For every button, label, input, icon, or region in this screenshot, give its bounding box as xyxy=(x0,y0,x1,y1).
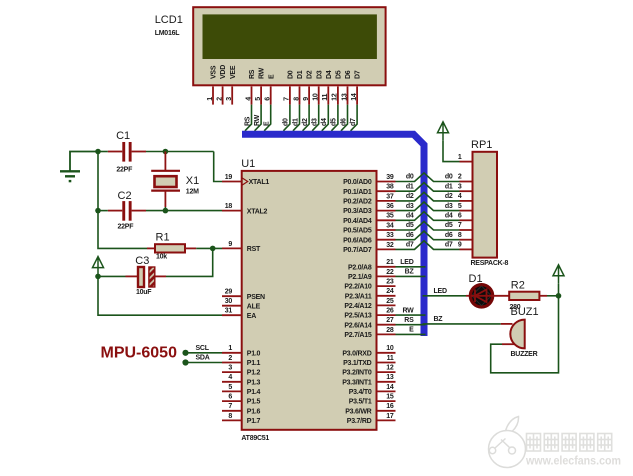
wire C2 to XTAL2 pin xyxy=(146,210,222,212)
svg-text:P1.0: P1.0 xyxy=(247,350,261,357)
terminal SDA xyxy=(182,359,188,365)
svg-text:P2.1/A9: P2.1/A9 xyxy=(348,274,372,281)
svg-text:EA: EA xyxy=(247,313,256,320)
svg-text:BZ: BZ xyxy=(434,316,444,323)
crystal X1 xyxy=(151,171,180,191)
svg-text:6: 6 xyxy=(265,97,272,101)
C3 left stub xyxy=(126,275,139,277)
svg-text:5: 5 xyxy=(228,384,232,391)
junction at C2 left xyxy=(95,208,101,214)
LCD display LCD1 xyxy=(193,7,385,85)
svg-text:12: 12 xyxy=(386,365,394,372)
svg-text:36: 36 xyxy=(386,203,394,210)
svg-text:P3.6/WR: P3.6/WR xyxy=(345,408,371,415)
svg-text:C2: C2 xyxy=(118,190,132,202)
wire R1 to RST pin xyxy=(196,247,222,249)
svg-text:VEE: VEE xyxy=(230,65,237,79)
svg-text:2: 2 xyxy=(458,174,462,181)
wire C1 left xyxy=(98,151,108,153)
svg-text:D3: D3 xyxy=(316,70,323,79)
svg-text:27: 27 xyxy=(386,317,394,324)
svg-text:E: E xyxy=(268,74,275,79)
wire BZ: bus to BUZ1 xyxy=(423,323,501,325)
svg-text:P0.1/AD1: P0.1/AD1 xyxy=(343,189,372,196)
svg-text:30: 30 xyxy=(225,298,233,305)
wire d5: U1 pin 34 over bus to RP1 pin 7 xyxy=(396,221,460,230)
svg-text:P3.0/RXD: P3.0/RXD xyxy=(342,350,371,357)
U1 right pin numbers 39-32 21-28 10-17 xyxy=(386,174,394,420)
svg-text:21: 21 xyxy=(386,259,394,266)
LCD1 pin name labels VSS VDD VEE RS RW E D0-D7 xyxy=(211,65,362,79)
wire column C1-C2-R1 xyxy=(98,152,147,249)
wire d3: U1 pin 36 over bus to RP1 pin 5 xyxy=(396,202,460,211)
watermark elecfans logo xyxy=(489,417,526,468)
junction at X1 top xyxy=(163,149,169,155)
svg-text:P0.4/AD4: P0.4/AD4 xyxy=(343,218,372,225)
microcontroller U1 AT89C51 body xyxy=(242,171,377,430)
X1 top stub xyxy=(164,152,166,171)
svg-text:39: 39 xyxy=(386,174,394,181)
svg-text:D7: D7 xyxy=(355,70,362,79)
svg-text:LCD1: LCD1 xyxy=(155,14,183,26)
svg-text:R1: R1 xyxy=(156,231,170,243)
svg-text:d0: d0 xyxy=(445,174,453,181)
svg-text:P0.0/AD0: P0.0/AD0 xyxy=(343,179,372,186)
svg-text:MPU-6050: MPU-6050 xyxy=(101,345,178,362)
svg-text:d7: d7 xyxy=(406,242,414,249)
wire LCD pin 11 (d4) to bus xyxy=(322,105,329,131)
svg-text:XTAL2: XTAL2 xyxy=(247,208,268,215)
svg-text:VSS: VSS xyxy=(211,65,218,79)
wire LCD pin 4 (RS) to bus xyxy=(245,105,252,131)
BUZ1 pin stubs xyxy=(501,324,515,344)
svg-text:17: 17 xyxy=(386,413,394,420)
svg-text:d0: d0 xyxy=(283,118,290,126)
C1 right stub xyxy=(132,151,146,153)
svg-text:ALE: ALE xyxy=(247,303,261,310)
C1 left stub xyxy=(108,151,123,153)
svg-text:4: 4 xyxy=(458,193,462,200)
svg-text:4: 4 xyxy=(245,97,252,101)
svg-text:P1.6: P1.6 xyxy=(247,408,261,415)
svg-text:d4: d4 xyxy=(321,118,328,126)
wire LED: bus to D1 xyxy=(423,295,467,297)
LCD1 pin numbers 1-14 xyxy=(207,93,358,101)
svg-text:P1.7: P1.7 xyxy=(247,418,261,425)
svg-text:d3: d3 xyxy=(406,203,414,210)
U1 left pin numbers 19 18 9 29 30 31 1-8 xyxy=(225,174,233,420)
wire d0: U1 pin 39 over bus to RP1 pin 2 xyxy=(396,173,460,182)
power symbol VCC at C3 xyxy=(93,257,104,276)
svg-text:d3: d3 xyxy=(445,203,453,210)
svg-text:RS: RS xyxy=(244,116,251,126)
U1 left pin names xyxy=(247,179,270,425)
svg-text:14: 14 xyxy=(386,384,394,391)
svg-text:d6: d6 xyxy=(406,232,414,239)
svg-text:P3.1/TXD: P3.1/TXD xyxy=(343,360,372,367)
wire VCC to RP1 pin 1 xyxy=(443,141,460,162)
wire RW: U1 pin 26 to bus xyxy=(396,314,426,316)
C2 left stub xyxy=(108,210,123,212)
svg-text:XTAL1: XTAL1 xyxy=(249,179,270,186)
wire VCC column to EA pin xyxy=(98,276,222,315)
svg-text:1: 1 xyxy=(228,345,232,352)
svg-text:3: 3 xyxy=(228,365,232,372)
svg-text:LED: LED xyxy=(400,259,413,266)
svg-text:P3.3/INT1: P3.3/INT1 xyxy=(342,379,372,386)
resistor R2 body xyxy=(509,292,539,300)
svg-text:BUZZER: BUZZER xyxy=(511,351,538,358)
svg-text:SCL: SCL xyxy=(196,345,210,352)
junction at C3 left / VCC xyxy=(95,274,101,280)
svg-text:P2.0/A8: P2.0/A8 xyxy=(348,264,372,271)
svg-text:E: E xyxy=(264,121,271,126)
svg-text:13: 13 xyxy=(386,374,394,381)
svg-text:7: 7 xyxy=(284,97,291,101)
svg-text:d5: d5 xyxy=(331,118,338,126)
svg-text:P1.1: P1.1 xyxy=(247,360,261,367)
svg-text:C1: C1 xyxy=(116,130,130,142)
svg-text:D0: D0 xyxy=(288,70,295,79)
svg-text:29: 29 xyxy=(225,289,233,296)
svg-text:d2: d2 xyxy=(445,193,453,200)
wire LCD pin 14 (d7) to bus xyxy=(351,105,358,131)
RP1 pin stubs 1-9 xyxy=(460,162,473,250)
power symbol VCC at RP1 xyxy=(438,122,449,141)
net labels LED BZ RW RS E at U1 P2 pins xyxy=(400,259,414,334)
svg-text:C3: C3 xyxy=(135,255,149,267)
svg-text:PSEN: PSEN xyxy=(247,294,265,301)
svg-text:11: 11 xyxy=(387,355,394,362)
wire LCD pin 13 (d6) to bus xyxy=(341,105,348,131)
svg-text:18: 18 xyxy=(225,203,233,210)
LED D1 xyxy=(470,285,492,307)
svg-text:RW: RW xyxy=(259,67,266,79)
svg-text:D1: D1 xyxy=(469,273,483,285)
svg-text:23: 23 xyxy=(386,279,394,286)
wire LED: U1 pin 21 to bus xyxy=(396,266,426,268)
svg-text:9: 9 xyxy=(228,241,232,248)
svg-text:d6: d6 xyxy=(445,232,453,239)
wire VCC arrow to node xyxy=(558,284,560,296)
svg-text:24: 24 xyxy=(386,288,394,295)
svg-text:P2.7/A15: P2.7/A15 xyxy=(344,332,372,339)
svg-text:P2.2/A10: P2.2/A10 xyxy=(344,284,372,291)
wire d6: U1 pin 33 over bus to RP1 pin 8 xyxy=(396,231,460,240)
svg-text:38: 38 xyxy=(386,184,394,191)
wire E: U1 pin 28 to bus xyxy=(396,333,426,335)
svg-text:9: 9 xyxy=(303,97,310,101)
svg-text:SDA: SDA xyxy=(196,355,210,362)
svg-text:d7: d7 xyxy=(350,118,357,126)
svg-text:28: 28 xyxy=(386,327,394,334)
svg-text:3: 3 xyxy=(226,97,233,101)
svg-text:P3.7/RD: P3.7/RD xyxy=(347,418,372,425)
wire R2 to VCC node xyxy=(547,295,559,297)
wire VCC node down and left to buzzer xyxy=(491,296,559,373)
svg-text:5: 5 xyxy=(458,203,462,210)
svg-text:13: 13 xyxy=(341,93,348,101)
wire LCD pin 8 (d1) to bus xyxy=(293,105,300,131)
resistor pack RP1 body xyxy=(473,152,498,258)
svg-text:10: 10 xyxy=(386,345,394,352)
capacitor C1 xyxy=(122,142,131,162)
svg-text:D5: D5 xyxy=(336,70,343,79)
svg-text:d6: d6 xyxy=(340,118,347,126)
svg-text:1: 1 xyxy=(458,154,462,161)
svg-text:RS: RS xyxy=(249,69,256,79)
net labels d0-d7 right of bus xyxy=(445,174,453,249)
wire LCD pin 10 (d3) to bus xyxy=(312,105,319,131)
svg-text:P3.4/T0: P3.4/T0 xyxy=(349,389,372,396)
LCD1 pin lines 1-14 xyxy=(213,87,357,105)
svg-text:P2.5/A13: P2.5/A13 xyxy=(344,313,372,320)
C2 right stub xyxy=(132,210,146,212)
wire RS: U1 pin 27 to bus xyxy=(396,324,426,326)
svg-text:34: 34 xyxy=(386,222,394,229)
svg-text:D1: D1 xyxy=(297,70,304,79)
svg-text:BUZ1: BUZ1 xyxy=(511,306,539,318)
capacitor C3 (electrolytic) xyxy=(138,267,155,287)
svg-text:6: 6 xyxy=(458,213,462,220)
svg-text:d3: d3 xyxy=(312,118,319,126)
terminal SCL xyxy=(182,350,188,356)
junction node at R2/VCC xyxy=(556,293,562,299)
svg-text:15: 15 xyxy=(386,394,394,401)
svg-text:25: 25 xyxy=(386,298,394,305)
wire X1 to XTAL2 xyxy=(164,207,166,211)
svg-text:7: 7 xyxy=(228,403,232,410)
svg-text:22: 22 xyxy=(386,269,394,276)
svg-text:P1.2: P1.2 xyxy=(247,370,261,377)
wire LCD pin 9 (d2) to bus xyxy=(303,105,310,131)
svg-text:2: 2 xyxy=(228,355,232,362)
svg-text:8: 8 xyxy=(228,413,232,420)
svg-text:RESPACK-8: RESPACK-8 xyxy=(471,260,509,267)
wire ground to C1/C2 column xyxy=(70,152,98,172)
svg-text:LED: LED xyxy=(434,288,447,295)
svg-text:D4: D4 xyxy=(326,70,333,79)
svg-text:RW: RW xyxy=(402,307,414,314)
svg-text:12: 12 xyxy=(332,93,339,101)
svg-text:2: 2 xyxy=(216,97,223,101)
svg-text:d2: d2 xyxy=(406,193,414,200)
svg-text:www.elecfans.com: www.elecfans.com xyxy=(525,455,621,467)
svg-text:d5: d5 xyxy=(406,222,414,229)
C3 right stub xyxy=(155,275,166,277)
svg-text:7: 7 xyxy=(458,222,462,229)
svg-text:D6: D6 xyxy=(345,70,352,79)
wire BZ: U1 pin 22 to bus xyxy=(396,275,426,277)
wire SDA to P1.1 xyxy=(186,362,223,364)
svg-text:d4: d4 xyxy=(406,213,414,220)
D1 anode stub xyxy=(466,295,471,297)
RP1 pin numbers 1-9 xyxy=(458,154,462,249)
wire d4: U1 pin 35 over bus to RP1 pin 6 xyxy=(396,212,460,221)
watermark chinese characters xyxy=(527,434,612,452)
svg-text:U1: U1 xyxy=(241,158,255,170)
wire d1: U1 pin 38 over bus to RP1 pin 3 xyxy=(396,183,460,192)
svg-text:P0.7/AD7: P0.7/AD7 xyxy=(343,247,372,254)
wire d2: U1 pin 37 over bus to RP1 pin 4 xyxy=(396,192,460,201)
svg-text:E: E xyxy=(409,327,414,334)
wire RST node down to C3 xyxy=(166,248,213,276)
junction at C1 left xyxy=(95,149,101,155)
wire LCD pin 12 (d5) to bus xyxy=(331,105,338,131)
svg-text:R2: R2 xyxy=(511,279,525,291)
U1 XTAL1 pin arrow xyxy=(242,178,248,186)
svg-text:RW: RW xyxy=(254,114,261,126)
svg-text:LM016L: LM016L xyxy=(155,30,181,37)
svg-text:d2: d2 xyxy=(302,118,309,126)
capacitor C2 xyxy=(122,201,131,221)
svg-text:d4: d4 xyxy=(445,213,453,220)
svg-text:10k: 10k xyxy=(156,254,167,261)
svg-text:d5: d5 xyxy=(445,222,453,229)
svg-text:P2.4/A12: P2.4/A12 xyxy=(344,303,372,310)
U1 left pin stubs xyxy=(222,182,242,421)
svg-text:8: 8 xyxy=(293,97,300,101)
power symbol VCC at R2 xyxy=(553,265,564,284)
svg-text:3: 3 xyxy=(458,183,462,190)
junction at X1 bottom xyxy=(163,208,169,214)
svg-text:8: 8 xyxy=(458,232,462,239)
svg-text:d0: d0 xyxy=(406,174,414,181)
svg-text:P3.5/T1: P3.5/T1 xyxy=(349,399,372,406)
svg-text:RP1: RP1 xyxy=(471,139,492,151)
net labels RS RW E d0-d7 at LCD wires xyxy=(244,114,357,126)
wire VCC to C3 xyxy=(98,275,126,277)
svg-text:22PF: 22PF xyxy=(116,167,133,174)
wire C1 to XTAL1 corner xyxy=(146,151,214,153)
svg-text:12M: 12M xyxy=(186,189,199,196)
svg-text:P0.5/AD5: P0.5/AD5 xyxy=(343,228,372,235)
svg-text:22PF: 22PF xyxy=(118,223,135,230)
svg-text:P1.5: P1.5 xyxy=(247,399,261,406)
svg-text:P1.3: P1.3 xyxy=(247,379,261,386)
svg-text:RST: RST xyxy=(247,246,261,253)
ground symbol xyxy=(60,171,80,181)
svg-text:P2.3/A11: P2.3/A11 xyxy=(345,293,372,300)
svg-text:9: 9 xyxy=(458,242,462,249)
net labels d0-d7 left of bus xyxy=(406,174,414,249)
svg-text:BZ: BZ xyxy=(405,269,415,276)
svg-text:P0.6/AD6: P0.6/AD6 xyxy=(343,237,372,244)
svg-text:P1.4: P1.4 xyxy=(247,389,261,396)
svg-text:11: 11 xyxy=(322,94,329,101)
svg-text:RS: RS xyxy=(404,317,414,324)
junction at RST node xyxy=(210,246,216,252)
svg-text:d1: d1 xyxy=(292,118,299,126)
svg-text:14: 14 xyxy=(351,93,358,101)
svg-text:d1: d1 xyxy=(445,183,453,190)
U1 right pin names xyxy=(342,179,372,425)
svg-text:37: 37 xyxy=(386,193,394,200)
U1 right pin stubs xyxy=(377,182,396,421)
svg-text:P0.2/AD2: P0.2/AD2 xyxy=(343,199,372,206)
svg-text:4: 4 xyxy=(228,374,232,381)
X1 bottom stub xyxy=(164,191,166,207)
bus (blue) xyxy=(242,134,424,336)
wire SCL to P1.0 xyxy=(186,352,223,354)
R1 right stub xyxy=(185,247,196,249)
svg-text:26: 26 xyxy=(386,308,394,315)
svg-text:16: 16 xyxy=(386,403,394,410)
svg-text:P3.2/INT0: P3.2/INT0 xyxy=(342,370,372,377)
wire C2 left xyxy=(98,210,108,212)
R1 left stub xyxy=(147,247,155,249)
svg-text:D2: D2 xyxy=(307,70,314,79)
wire LCD pin 5 (RW) to bus xyxy=(255,105,262,131)
svg-text:33: 33 xyxy=(386,232,394,239)
wire LCD pin 6 (E) to bus xyxy=(264,105,271,131)
buzzer BUZ1 body xyxy=(510,320,524,349)
svg-text:P2.6/A14: P2.6/A14 xyxy=(344,322,372,329)
svg-text:X1: X1 xyxy=(186,175,199,187)
wire D1 cathode to R2 xyxy=(492,295,510,297)
svg-text:d7: d7 xyxy=(445,242,453,249)
svg-text:32: 32 xyxy=(386,242,394,249)
wire d7: U1 pin 32 over bus to RP1 pin 9 xyxy=(396,241,460,250)
resistor R1 body xyxy=(155,244,185,252)
svg-text:10: 10 xyxy=(313,93,320,101)
svg-text:35: 35 xyxy=(386,213,394,220)
svg-text:VDD: VDD xyxy=(220,65,227,79)
LCD1 screen xyxy=(203,14,377,59)
wire corner to XTAL1 pin xyxy=(214,152,222,182)
svg-text:6: 6 xyxy=(228,394,232,401)
svg-text:P0.3/AD3: P0.3/AD3 xyxy=(343,208,372,215)
svg-text:1: 1 xyxy=(207,97,214,101)
svg-text:31: 31 xyxy=(225,308,233,315)
svg-text:10uF: 10uF xyxy=(136,289,152,296)
svg-text:19: 19 xyxy=(225,174,233,181)
R2 right stub xyxy=(539,295,547,297)
svg-text:5: 5 xyxy=(255,97,262,101)
svg-text:AT89C51: AT89C51 xyxy=(241,435,269,442)
svg-text:d1: d1 xyxy=(406,183,414,190)
wire LCD pin 7 (d0) to bus xyxy=(283,105,290,131)
